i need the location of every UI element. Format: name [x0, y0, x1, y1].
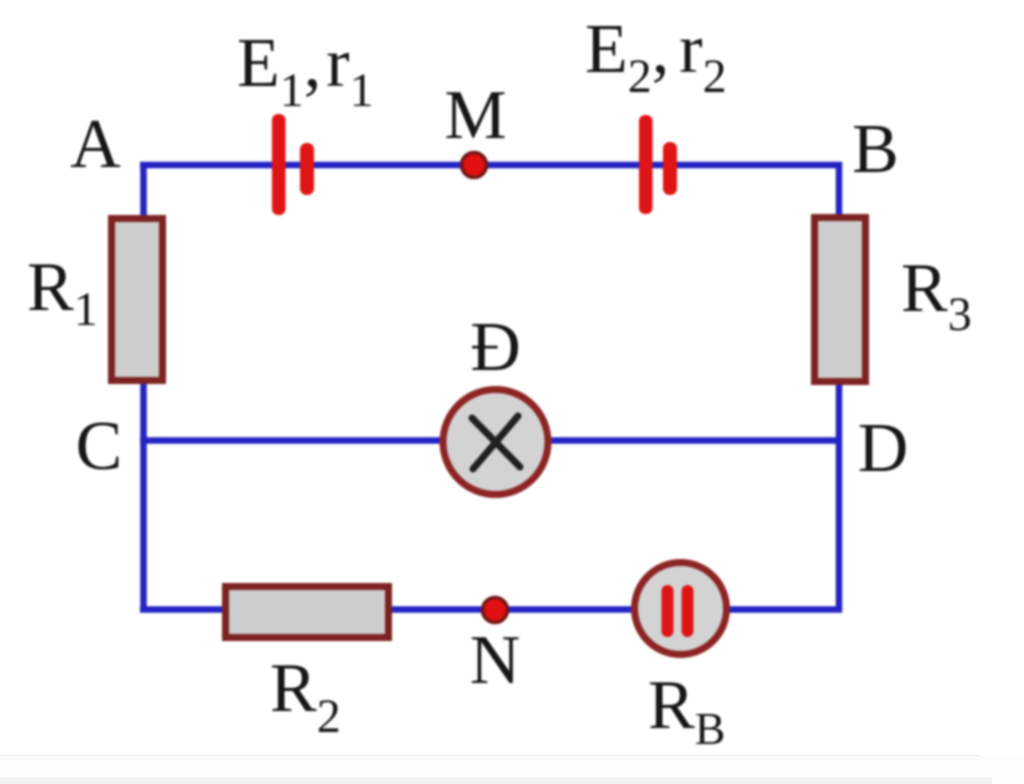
- svg-text:R2: R2: [270, 650, 341, 743]
- label Dj (lamp): [470, 309, 521, 386]
- label M: [444, 77, 506, 154]
- wire: top A to B: [140, 162, 842, 169]
- svg-text:E1,r1: E1,r1: [237, 25, 374, 117]
- svg-text:RB: RB: [648, 667, 725, 754]
- label D: [858, 410, 909, 487]
- svg-text:R1: R1: [27, 249, 98, 336]
- label A: [70, 106, 121, 183]
- node N (junction dot): [483, 598, 508, 623]
- label N: [470, 622, 521, 699]
- svg-text:M: M: [444, 77, 506, 154]
- label R2: [270, 650, 341, 743]
- wire: middle C to D: [140, 437, 842, 444]
- label R1: [27, 249, 98, 336]
- svg-text:Đ: Đ: [470, 309, 521, 386]
- label E2,r2: [585, 11, 727, 103]
- svg-text:E2,r2: E2,r2: [585, 11, 727, 103]
- resistor R1: [112, 219, 163, 381]
- node M (junction dot): [462, 153, 487, 178]
- svg-text:A: A: [70, 106, 121, 183]
- svg-text:B: B: [852, 111, 899, 188]
- svg-text:D: D: [858, 410, 909, 487]
- rheostat RB (circle with two red bars): [635, 563, 727, 655]
- label C: [76, 408, 123, 485]
- wire: right vertical B down through R3 to bottom wire: [836, 162, 843, 612]
- label E1,r1: [237, 25, 374, 117]
- battery E1 (cell plates): [272, 114, 314, 215]
- resistor R2: [226, 587, 389, 638]
- resistor R3: [815, 218, 866, 382]
- lamp D (bulb symbol with X): [443, 390, 548, 495]
- battery E2 (cell plates): [639, 115, 677, 214]
- wire: left vertical A down through R1 to bottom wire: [140, 162, 147, 612]
- svg-text:C: C: [76, 408, 123, 485]
- label B: [852, 111, 899, 188]
- svg-text:R3: R3: [901, 250, 972, 341]
- wire: bottom C to D lower branch: [140, 606, 842, 613]
- svg-text:N: N: [470, 622, 521, 699]
- label R3: [901, 250, 972, 341]
- label RB: [648, 667, 725, 754]
